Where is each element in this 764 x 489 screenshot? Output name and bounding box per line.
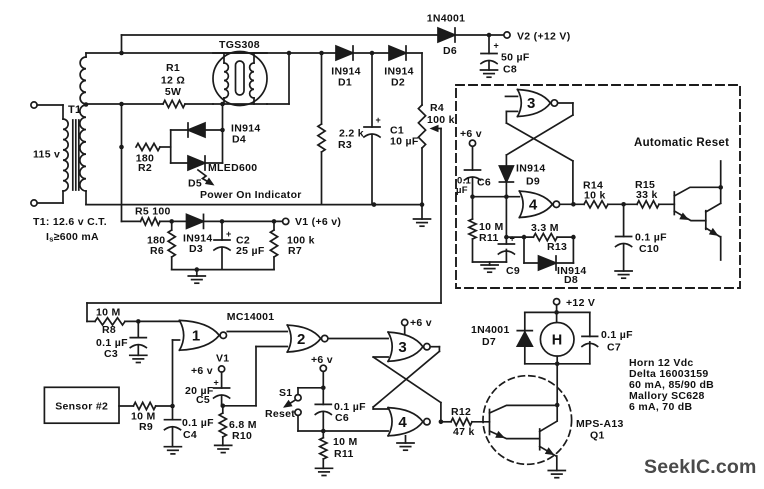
label S1: [279, 387, 292, 399]
svg-text:MPS-A13: MPS-A13: [576, 418, 624, 430]
svg-text:33 k: 33 k: [636, 189, 658, 201]
svg-text:0.1 µF: 0.1 µF: [601, 329, 633, 341]
diode D4: [188, 123, 205, 137]
svg-text:C4: C4: [183, 429, 197, 441]
svg-text:Power On Indicator: Power On Indicator: [200, 189, 302, 201]
node junction bracket top: [554, 310, 559, 315]
svg-text:D7: D7: [482, 336, 496, 348]
svg-text:25 µF: 25 µF: [236, 245, 265, 257]
label horn specs: [629, 357, 714, 413]
node junction sensor node: [170, 404, 175, 409]
svg-text:47 k: 47 k: [453, 426, 475, 438]
label T1 spec: [33, 216, 107, 228]
svg-text:C6: C6: [335, 412, 349, 424]
svg-text:+12 V: +12 V: [566, 297, 595, 309]
node: +12V terminal: [554, 297, 596, 309]
node junction R3 top: [319, 51, 324, 56]
resistor R15: [637, 201, 659, 208]
resistor R2: [136, 143, 160, 150]
label D9: [516, 163, 546, 188]
NOR gate 4 (reset): [519, 191, 559, 217]
svg-text:6 mA, 70 dB: 6 mA, 70 dB: [629, 401, 693, 413]
svg-text:C9: C9: [506, 265, 520, 277]
node junction C1 top: [370, 51, 375, 56]
label R8: [96, 307, 121, 337]
capacitor C5: [214, 372, 230, 406]
diode D9: [499, 155, 513, 197]
capacitor C3: [130, 321, 146, 355]
transistor Qa base bar: [673, 192, 675, 215]
node junction C3 top: [136, 319, 141, 324]
resistor R9: [133, 402, 172, 409]
svg-text:1N4001: 1N4001: [427, 13, 466, 25]
label Power On Indicator: [200, 189, 302, 201]
label D2: [384, 66, 414, 89]
transistor Qb emitter: [706, 228, 721, 260]
label C1: [390, 125, 419, 148]
svg-text:D4: D4: [232, 134, 246, 146]
label D7: [471, 324, 510, 348]
transistor Q1b base bar: [539, 429, 541, 450]
svg-text:R1: R1: [166, 62, 180, 74]
wire: TGS bypass right: [267, 53, 289, 104]
node junction riser top: [119, 102, 124, 107]
svg-text:T1: 12.6 v C.T.: T1: 12.6 v C.T.: [33, 216, 107, 228]
svg-text:12 Ω: 12 Ω: [161, 75, 185, 87]
label R9: [131, 411, 156, 434]
node junction D8 left: [522, 235, 527, 240]
wire: gate1 out to gate2: [227, 331, 287, 333]
svg-text:S1: S1: [279, 387, 292, 399]
node junction Q1a collector: [555, 403, 560, 408]
horn bracket: [525, 312, 590, 363]
node junction C10 top: [621, 202, 626, 207]
label C7: [601, 329, 633, 354]
svg-text:0.1 µF: 0.1 µF: [182, 417, 214, 429]
node: +6v terminal gate3: [402, 317, 432, 334]
svg-text:Automatic Reset: Automatic Reset: [634, 137, 729, 149]
capacitor C6 (bottom): [315, 404, 331, 431]
svg-text:5W: 5W: [165, 86, 181, 98]
capacitor C6 (reset): [465, 146, 481, 196]
svg-text:+: +: [494, 41, 500, 51]
label R10: [229, 419, 257, 442]
svg-text:Reset: Reset: [265, 408, 295, 420]
svg-text:R9: R9: [139, 421, 153, 433]
node junction R13 left: [504, 235, 509, 240]
capacitor C2: [214, 221, 232, 269]
label MLED600: [208, 162, 257, 174]
label D5: [188, 178, 202, 190]
svg-text:Q1: Q1: [590, 430, 605, 442]
label V1 (+6 v): [295, 216, 341, 228]
label R15: [635, 179, 658, 201]
ground below C10: [615, 271, 632, 278]
cross wire: gate4 out to gate3 in: [373, 357, 441, 422]
label +6v C5: [191, 365, 213, 377]
cross wire: gate3 out to D9: [506, 115, 573, 155]
node: secondary center tap: [84, 102, 89, 107]
svg-text:TGS308: TGS308: [219, 39, 260, 51]
label R11 bottom: [333, 436, 358, 460]
resistor R6: [168, 221, 175, 269]
wire: bracket to Q1 collector: [556, 356, 558, 421]
node junction C6 bottom: [470, 194, 475, 199]
svg-text:D1: D1: [338, 77, 352, 89]
label C10: [635, 232, 667, 256]
LED D5 arrow: [198, 170, 215, 186]
capacitor C9: [498, 234, 515, 263]
R4 wiper arrow: [430, 125, 442, 133]
node junction C5 bottom: [221, 404, 226, 409]
wire: ground rail y204: [86, 204, 422, 206]
svg-text:R11: R11: [479, 232, 499, 244]
resistor R3: [318, 53, 325, 204]
gate3 reset input stub: [506, 95, 518, 97]
wire: S1 bottom to C6 node: [298, 415, 323, 431]
ground of V1 filter: [188, 270, 205, 284]
capacitor C7: [582, 336, 598, 346]
svg-text:Sensor #2: Sensor #2: [55, 401, 108, 413]
vertical: timing node: [505, 197, 507, 237]
wire: R11 bottom to C9: [473, 261, 507, 263]
svg-text:MLED600: MLED600: [208, 162, 257, 174]
node junction ground: [195, 267, 200, 272]
node junction at 121.5,53: [119, 51, 124, 56]
wire: +6v to C6 node: [322, 371, 324, 404]
ground below R10: [215, 445, 232, 452]
svg-text:C10: C10: [639, 243, 659, 255]
wire: +12V to bracket: [556, 305, 558, 323]
watermark SeekIC.com: [644, 456, 757, 478]
diode pair frame: [171, 104, 223, 163]
label C6 reset: [456, 176, 491, 197]
label C4: [182, 417, 214, 441]
automatic reset dashed box: [456, 85, 740, 288]
label R4: [427, 102, 455, 126]
svg-text:Is≥600 mA: Is≥600 mA: [46, 231, 99, 244]
svg-text:115 v: 115 v: [33, 149, 60, 161]
ground below C4: [164, 447, 181, 454]
horn H: [540, 323, 574, 357]
svg-text:C5: C5: [196, 394, 210, 406]
svg-text:C6: C6: [477, 177, 491, 189]
resistor R11 (reset): [469, 197, 476, 262]
node: V1 terminal: [283, 218, 289, 224]
node junction gate4 output: [439, 420, 444, 425]
ground below gate4: [397, 436, 414, 450]
svg-text:+6 v: +6 v: [460, 128, 482, 140]
label T1 current: [46, 231, 99, 244]
label R7: [287, 235, 315, 258]
label Reset: [265, 408, 295, 420]
wire: to S1: [298, 388, 323, 395]
svg-text:1N4001: 1N4001: [471, 324, 510, 336]
diode D1: [336, 46, 353, 60]
transistor Qa emitter: [674, 211, 706, 221]
label 115 v: [33, 149, 60, 161]
wire: D1 to D2: [353, 52, 389, 54]
diode D7 1N4001: [517, 331, 532, 347]
transistor Q1b collector: [540, 422, 557, 432]
NOR gate 4 (flip-flop): [388, 408, 430, 436]
ground below C8: [481, 70, 498, 77]
node: V1 terminal bottom: [216, 353, 229, 373]
svg-text:V2 (+12 V): V2 (+12 V): [517, 31, 571, 43]
label C6 bottom: [334, 401, 366, 424]
wire: collector lead up: [720, 161, 722, 187]
svg-text:+: +: [226, 229, 232, 239]
LED D5 MLED600: [188, 156, 205, 170]
ground below R11: [316, 468, 333, 475]
wire: Q1 emitter to ground: [556, 456, 558, 471]
wire: through TGS top: [213, 52, 267, 54]
svg-text:C8: C8: [503, 64, 517, 76]
svg-text:+6 v: +6 v: [410, 317, 432, 329]
wire: R1 to TGS: [185, 103, 213, 105]
capacitor C1: [364, 53, 381, 204]
ground below C3: [130, 355, 147, 362]
label R13: [531, 222, 567, 253]
potentiometer R4: [418, 105, 425, 204]
svg-text:R11: R11: [334, 448, 354, 460]
NOR gate 1: [180, 320, 227, 350]
resistor R1: [163, 100, 185, 107]
svg-text:SeekIC.com: SeekIC.com: [644, 456, 757, 478]
transformer T1 primary winding: [63, 119, 68, 191]
label C9: [506, 265, 520, 277]
node junction bracket bottom: [555, 362, 560, 367]
wire: D2 to R4: [406, 53, 422, 105]
svg-text:10 k: 10 k: [584, 190, 606, 202]
diode D2: [389, 46, 406, 60]
wire: R2 to diode pair: [160, 146, 171, 148]
wire: through TGS bottom: [213, 103, 267, 105]
svg-text:C7: C7: [607, 342, 621, 354]
ground of top rail: [414, 205, 431, 227]
ground in reset box: [481, 262, 498, 272]
TGS308 left heater coil: [224, 53, 228, 104]
resistor R10: [219, 406, 226, 446]
svg-text:D2: D2: [391, 77, 405, 89]
label V2: [517, 31, 571, 43]
resistor R5: [122, 218, 187, 225]
svg-text:10 µF: 10 µF: [390, 136, 419, 148]
transistor Q1a emitter: [490, 431, 540, 439]
svg-text:R8: R8: [102, 324, 116, 336]
node junction TGS left bottom: [220, 102, 225, 107]
wire: gate1 lower input riser: [173, 340, 180, 406]
NOR gate 2: [287, 325, 328, 352]
transistor Qb collector: [706, 187, 721, 212]
wire: D6 to V2: [455, 34, 504, 36]
label Automatic Reset: [634, 137, 729, 149]
label MPS-A13 Q1: [576, 418, 624, 442]
label D3: [183, 233, 213, 256]
wire + resistor R13: [506, 234, 573, 241]
svg-text:R4: R4: [430, 102, 444, 114]
resistor R14: [584, 201, 608, 208]
label C8: [501, 52, 530, 76]
svg-text:3.3 M: 3.3 M: [531, 222, 559, 234]
node junction gate4 input: [504, 194, 509, 199]
svg-text:µF: µF: [456, 185, 468, 196]
node junction R6 top: [169, 219, 174, 224]
wire: R6-C2-R7 bottoms: [172, 269, 274, 271]
svg-text:MC14001: MC14001: [227, 311, 275, 323]
svg-text:4: 4: [398, 414, 407, 431]
label R1: [161, 62, 185, 98]
wire: center tap to R1: [86, 103, 163, 105]
svg-text:V1 (+6 v): V1 (+6 v): [295, 216, 341, 228]
svg-text:+: +: [510, 234, 516, 244]
svg-text:2: 2: [297, 331, 306, 348]
svg-text:R3: R3: [338, 139, 352, 151]
label R14: [583, 180, 606, 202]
transistor Qb base bar: [705, 211, 707, 230]
transistor Q1b emitter: [540, 447, 556, 457]
label TGS308: [219, 39, 260, 51]
NOR gate 3 (flip-flop): [388, 332, 430, 361]
svg-text:2.2 k: 2.2 k: [339, 128, 364, 140]
sensor #2 box: [44, 387, 119, 423]
label R5: [135, 206, 171, 218]
wire: C6 node to gate4 input: [323, 430, 388, 432]
gas sensor TGS308 envelope: [213, 52, 267, 106]
node junction TGS bypass: [287, 51, 292, 56]
label T1: [68, 104, 81, 116]
label MC14001: [227, 311, 275, 323]
svg-text:R10: R10: [232, 430, 252, 442]
svg-text:50 µF: 50 µF: [501, 52, 530, 64]
label R6: [147, 235, 165, 258]
label R11 reset: [479, 221, 504, 244]
svg-text:+: +: [214, 378, 220, 388]
wire: C5 node to gate2 input: [223, 347, 287, 406]
capacitor C8: [481, 35, 499, 70]
wire: D3 to V1: [204, 220, 283, 222]
node junction D4 right: [220, 128, 225, 133]
wire: box to R9: [119, 405, 133, 407]
transistor Q1a collector: [490, 405, 557, 413]
wire: R15 to transistor base: [659, 203, 674, 205]
svg-text:D5: D5: [188, 178, 202, 190]
NOR gate 3 (reset): [518, 90, 558, 117]
svg-text:+: +: [376, 115, 382, 125]
svg-text:R12: R12: [451, 406, 471, 418]
label C2: [236, 235, 265, 258]
svg-text:+6 v: +6 v: [191, 365, 213, 377]
wire: sensor supply rail y53: [122, 52, 337, 54]
node junction R4 bottom: [420, 202, 425, 207]
ground below Q1: [548, 471, 565, 478]
TGS308 sensing element: [236, 61, 245, 95]
svg-text:H: H: [552, 333, 563, 349]
transistor Qa collector: [674, 187, 720, 196]
svg-text:R6: R6: [150, 245, 164, 257]
capacitor C10: [616, 204, 632, 271]
svg-text:1: 1: [192, 328, 201, 345]
resistor R7: [270, 221, 277, 269]
svg-text:100 k: 100 k: [427, 114, 455, 126]
node: V2 terminal: [504, 32, 510, 38]
diode D3: [187, 214, 204, 228]
svg-text:R5 100: R5 100: [135, 206, 171, 218]
node junction R2 left: [119, 145, 124, 150]
wire: primary bottom to terminal: [37, 191, 63, 203]
transformer T1 secondary upper half: [80, 53, 86, 104]
svg-text:3: 3: [527, 95, 536, 112]
label R12: [451, 406, 475, 438]
svg-text:0.1 µF: 0.1 µF: [635, 232, 667, 244]
wire: riser x121.5: [121, 104, 123, 221]
node junction R14 left: [571, 202, 576, 207]
transformer T1 secondary lower half: [80, 105, 86, 205]
node junction R7 top: [272, 219, 277, 224]
svg-text:D6: D6: [443, 45, 457, 57]
switch S1: [283, 395, 301, 416]
node junction C1 bottom: [372, 202, 377, 207]
label 1N4001 D6: [427, 13, 466, 58]
label D8: [557, 265, 587, 286]
svg-text:R7: R7: [288, 245, 302, 257]
cross wire: gate4 out to gate3 input: [506, 111, 573, 204]
resistor R11 (bottom): [320, 431, 327, 468]
node: +6v terminal S1: [311, 354, 333, 371]
node junction collector: [718, 185, 723, 190]
label D1: [331, 66, 361, 89]
capacitor C4: [165, 406, 181, 447]
label C3: [96, 337, 128, 360]
label D4: [231, 123, 261, 146]
node junction S1 top: [321, 386, 326, 391]
svg-text:10 M: 10 M: [333, 436, 358, 448]
wire: gate3 output right: [558, 103, 573, 115]
node junction C8 top: [487, 33, 492, 38]
node: 115V bottom terminal: [31, 200, 37, 206]
resistor R8: [87, 318, 180, 325]
svg-text:IN914: IN914: [516, 163, 546, 175]
wire: gate2 out to gate3: [329, 338, 388, 340]
transistor Q1a base bar: [489, 410, 491, 435]
node junction C2 top: [220, 219, 225, 224]
svg-text:D9: D9: [526, 176, 540, 188]
diode D8 branch: [524, 237, 573, 270]
svg-text:V1: V1: [216, 353, 229, 365]
node: 115V top terminal: [31, 102, 63, 119]
resistor R12: [443, 418, 490, 425]
node junction C6 bottom node: [321, 429, 326, 434]
svg-text:4: 4: [529, 197, 538, 214]
node: +6v terminal in box: [460, 128, 482, 146]
svg-text:D3: D3: [189, 243, 203, 255]
label R2: [136, 153, 154, 175]
svg-text:10 M: 10 M: [96, 307, 121, 319]
cross wire: gate3 out to gate4 in: [373, 347, 439, 409]
wire: C6 to gate4 input: [473, 196, 520, 198]
svg-text:R2: R2: [138, 162, 152, 174]
wire: +12V unregulated rail: [122, 34, 439, 36]
svg-text:R13: R13: [547, 241, 567, 253]
wire: feedback from R4 wiper: [87, 129, 441, 322]
node junction D8 right: [571, 235, 576, 240]
svg-text:3: 3: [398, 339, 407, 356]
wire: secondary top to +12V line: [86, 35, 122, 53]
label R3: [338, 128, 364, 152]
label C5: [185, 385, 214, 406]
wire: gate4 output to R14: [560, 203, 584, 205]
svg-text:C3: C3: [104, 348, 118, 360]
